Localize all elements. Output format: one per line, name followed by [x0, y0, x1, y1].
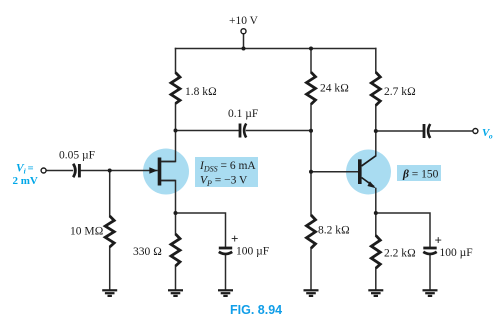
svg-text:FIG. 8.94: FIG. 8.94	[230, 303, 282, 317]
svg-text:2.7 kΩ: 2.7 kΩ	[384, 86, 416, 98]
svg-text:0.1 µF: 0.1 µF	[228, 108, 258, 120]
svg-text:+: +	[231, 231, 238, 246]
svg-text:0.05 µF: 0.05 µF	[59, 150, 95, 162]
svg-text:+10 V: +10 V	[229, 15, 259, 27]
svg-text:330 Ω: 330 Ω	[133, 246, 162, 258]
svg-text:+: +	[435, 233, 442, 248]
svg-text:24 kΩ: 24 kΩ	[320, 83, 349, 95]
svg-text:100 µF: 100 µF	[440, 247, 473, 259]
svg-text:2.2 kΩ: 2.2 kΩ	[384, 248, 416, 260]
svg-text:10 MΩ: 10 MΩ	[70, 226, 104, 238]
svg-text:100 µF: 100 µF	[236, 246, 269, 258]
svg-text:1.8 kΩ: 1.8 kΩ	[185, 86, 217, 98]
svg-text:β = 150: β = 150	[402, 169, 439, 181]
svg-text:8.2 kΩ: 8.2 kΩ	[318, 225, 350, 237]
svg-text:2 mV: 2 mV	[13, 175, 38, 187]
